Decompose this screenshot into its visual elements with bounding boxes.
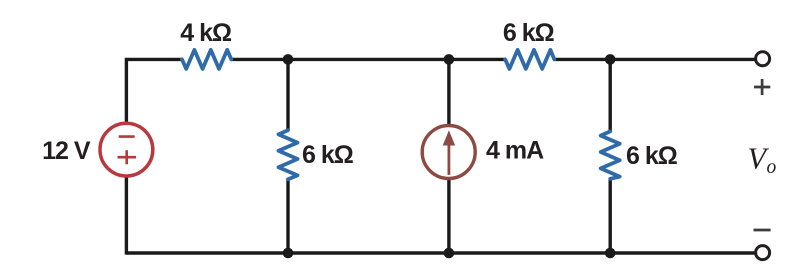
voltage source plus sign <box>118 156 137 159</box>
voltage source minus sign <box>119 135 135 138</box>
svg-text:6 kΩ: 6 kΩ <box>626 142 678 170</box>
wire: current source branch lower <box>447 180 450 253</box>
svg-text:4 mA: 4 mA <box>486 136 544 164</box>
wire: current source branch upper <box>447 59 450 124</box>
wire: top rail right segment (6k resistor to output terminal) <box>554 58 754 61</box>
wire: middle branch below 6k resistor <box>286 179 289 253</box>
svg-text:o: o <box>767 157 777 178</box>
resistor R4 6 kOhm (right vertical) <box>601 131 620 178</box>
node D (bottom of middle 6k branch) <box>283 248 294 259</box>
node A (top of middle 6k branch) <box>283 54 294 65</box>
wire: left branch below voltage source <box>125 177 128 254</box>
wire: right branch below right 6k resistor <box>609 179 612 253</box>
voltage source V1 12V circle <box>100 123 153 176</box>
node C (top of right 6k branch) <box>605 54 616 65</box>
output minus sign <box>754 229 771 232</box>
svg-text:12 V: 12 V <box>42 137 91 165</box>
wire: right branch above right 6k resistor <box>609 59 612 131</box>
resistor R3 6 kOhm (middle vertical) <box>279 130 298 179</box>
output plus sign <box>754 86 770 89</box>
wire: top rail left segment (from source to 4k resistor) <box>126 59 182 121</box>
svg-text:4 kΩ: 4 kΩ <box>180 19 232 47</box>
current source I1 4mA circle <box>422 126 475 179</box>
svg-text:6 kΩ: 6 kΩ <box>503 19 555 47</box>
node F (bottom of right 6k branch) <box>605 248 616 259</box>
node E (bottom of current source branch) <box>444 248 455 259</box>
node B (top of current source branch) <box>444 54 455 65</box>
svg-text:6 kΩ: 6 kΩ <box>302 141 354 169</box>
resistor R1 4 kOhm (horizontal) <box>182 50 231 69</box>
wire: middle branch above 6k resistor <box>286 59 289 130</box>
terminal: bottom output <box>756 246 770 260</box>
resistor R2 6 kOhm (top horizontal) <box>505 50 554 69</box>
current source arrow <box>447 144 450 175</box>
wire: top rail middle segment (4k resistor to top 6k resistor) <box>231 58 505 61</box>
wire: bottom rail <box>126 251 754 254</box>
terminal: top output <box>756 52 770 66</box>
